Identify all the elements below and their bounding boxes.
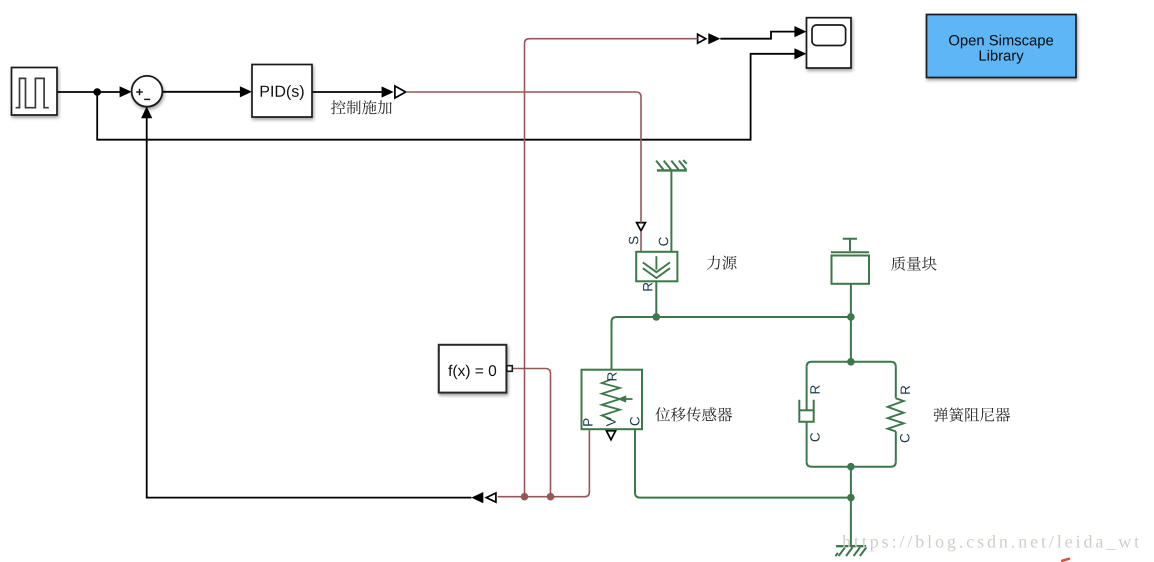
damper icon xyxy=(799,400,813,422)
PS wire: solver configuration connection xyxy=(513,369,551,497)
PS wire: position signal up to scope converter xyxy=(525,39,698,497)
sum minus sign xyxy=(144,98,150,100)
sum block xyxy=(132,76,163,107)
label: control input xyxy=(331,100,392,114)
pulse generator block xyxy=(12,68,58,116)
wire: damper branch rod xyxy=(806,367,808,411)
arrowhead into scope input 2 xyxy=(794,48,806,59)
solver configuration block f(x)=0 xyxy=(439,345,507,393)
open triangle: PS output of Simulink-PS converter xyxy=(395,86,406,98)
watermark red mark xyxy=(1062,559,1069,561)
mass block icon xyxy=(831,239,869,284)
wire: sum to PID xyxy=(163,91,241,93)
wire: converter to scope top input xyxy=(720,32,795,39)
ground: bottom mechanical reference bar xyxy=(836,545,866,547)
button text line 2 xyxy=(980,50,1024,64)
wire: pulse generator to sum xyxy=(57,91,120,93)
watermark text xyxy=(842,535,1139,551)
ground: top mechanical reference bar xyxy=(657,169,687,171)
wire: node bus from sensor R to mass stem xyxy=(612,317,851,370)
force source block xyxy=(636,252,677,281)
pulse generator icon xyxy=(16,78,49,107)
wire: branch down to scope reference input xyxy=(97,54,795,140)
label: position sensor xyxy=(655,407,732,421)
arrowhead at Simulink-PS converter input xyxy=(382,86,394,97)
arrowhead after PS-Simulink converter on scope line xyxy=(708,33,720,44)
label: force source xyxy=(707,256,737,270)
scope block xyxy=(807,18,852,68)
arrowhead into sum left input xyxy=(120,86,132,97)
wire: force source R down to node bus xyxy=(655,282,657,317)
junction dot: mass stem on bus xyxy=(847,313,855,321)
wire: PID output to converter xyxy=(312,91,382,93)
junction dot: force source R on bus xyxy=(653,313,661,321)
PS wire: sensor P output down and left to feedback converter xyxy=(498,430,590,497)
PID block text xyxy=(261,85,304,100)
force source port label C xyxy=(659,237,669,246)
wire: spring-damper top bus xyxy=(807,362,896,367)
scope screen icon xyxy=(812,25,846,46)
solver configuration port square xyxy=(507,366,512,372)
label: mass xyxy=(891,256,937,270)
junction dot: PS feedback branch xyxy=(521,493,529,501)
damper port label C xyxy=(810,433,820,442)
Open Simscape Library button xyxy=(927,15,1077,78)
wire: sensor C down and right to ground node xyxy=(635,430,851,498)
wire: spring-damper bottom bus xyxy=(807,462,896,467)
sensor spring icon xyxy=(602,379,620,419)
open triangle: PS input of feedback converter pointing left xyxy=(486,493,496,502)
ground: top reference hatching xyxy=(656,160,687,170)
force source port label S xyxy=(629,237,639,245)
open triangle: sensor V port unconnected pointing down xyxy=(606,431,615,440)
PS wire: converter to force source S xyxy=(406,92,641,223)
wire: mass bottom down to spring-damper top bus xyxy=(850,284,852,362)
force source icon xyxy=(643,256,670,278)
arrowhead into sum bottom input pointing up xyxy=(141,106,152,118)
junction dot: spring-damper bottom xyxy=(847,463,855,471)
junction dot: solver config tap xyxy=(547,493,555,501)
sensor port label C xyxy=(630,417,640,426)
ground: bottom reference hatching xyxy=(835,547,866,556)
sensor arrow icon xyxy=(626,398,633,400)
sensor port label P xyxy=(583,419,592,426)
wire: bottom bus down to ground xyxy=(850,467,852,546)
spring icon xyxy=(888,398,904,431)
open triangle: PS input of PS-Simulink converter on scope line xyxy=(698,34,706,43)
junction dot: pulse output branch xyxy=(93,88,101,96)
junction dot: spring-damper top xyxy=(847,358,855,366)
label: spring damper xyxy=(934,407,1011,421)
sensor port label R xyxy=(607,372,616,380)
arrowhead into PID input xyxy=(240,86,252,97)
force source port label R xyxy=(643,283,652,291)
arrowhead into scope input 1 xyxy=(794,26,806,37)
spring port label R xyxy=(901,386,910,394)
button text line 1 xyxy=(949,35,1053,49)
junction dot: ground branch with sensor C xyxy=(847,494,855,502)
wire: force source C to top mechanical reference xyxy=(670,171,672,252)
wire: damper cup to bottom bus corner xyxy=(806,422,808,462)
solver configuration text xyxy=(448,365,496,379)
arrowhead feedback pointing left xyxy=(471,492,483,503)
wire: feedback converter to sum bottom xyxy=(147,118,472,498)
PID controller block xyxy=(252,65,312,118)
position sensor block xyxy=(582,370,643,430)
wire: spring branch top xyxy=(895,367,897,399)
wire: spring branch bottom xyxy=(895,431,897,461)
open triangle: PS line into force source S port pointing down xyxy=(637,223,646,231)
sensor port label V xyxy=(606,417,615,426)
damper port label R xyxy=(810,385,819,393)
sum plus sign xyxy=(136,89,143,96)
spring port label C xyxy=(900,434,910,443)
